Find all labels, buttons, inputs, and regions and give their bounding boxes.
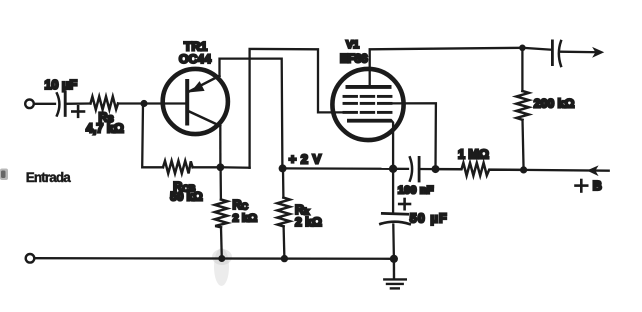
resistor 1M — [436, 163, 524, 176]
node screen/1M junction — [432, 165, 440, 173]
svg-text:2 kΩ: 2 kΩ — [233, 213, 258, 225]
node Rk bottom — [281, 255, 288, 262]
resistor Rk — [277, 168, 290, 258]
svg-text:200 kΩ: 200 kΩ — [534, 97, 575, 111]
wire collector down — [219, 126, 221, 168]
wire base node to transistor base — [144, 102, 186, 104]
svg-text:2 kΩ: 2 kΩ — [295, 215, 322, 229]
ground symbol — [384, 259, 406, 289]
capacitor C1 10uF — [57, 92, 65, 116]
wire input to C1 — [34, 103, 55, 105]
wire +2V node to cathode node — [283, 167, 393, 170]
node cathode — [389, 165, 397, 173]
svg-text:+ 2 V: + 2 V — [289, 152, 322, 167]
wire base node down to RCB — [142, 104, 163, 168]
svg-text:B: B — [593, 179, 602, 193]
wire screen grid g2 to right — [385, 103, 436, 169]
resistor 200k — [516, 48, 529, 170]
wire output with arrow — [561, 47, 605, 58]
svg-text:10 μF: 10 μF — [45, 78, 78, 92]
svg-text:50 kΩ: 50 kΩ — [170, 190, 202, 203]
wire cathode lead down — [392, 121, 394, 169]
svg-text:EF86: EF86 — [340, 52, 368, 66]
svg-text:100 nF: 100 nF — [398, 185, 434, 197]
polarity plus of C1 — [72, 106, 84, 117]
node base junction — [140, 100, 147, 107]
svg-text:1 MΩ: 1 MΩ — [458, 148, 489, 162]
input terminal (bottom) — [26, 254, 35, 263]
node collector junction — [217, 163, 225, 171]
node RC bottom — [218, 255, 225, 262]
capacitor output — [522, 41, 561, 66]
svg-text:OC44: OC44 — [179, 52, 211, 66]
wire emitter up and right to +2V node — [220, 59, 283, 169]
wire +B with arrow — [524, 165, 609, 176]
node anode/output — [519, 45, 526, 52]
capacitor 100nF — [393, 157, 435, 181]
node ground junction — [390, 255, 398, 263]
tube V1 EF86 — [332, 69, 403, 140]
polarity plus of C 50uF — [399, 199, 410, 209]
wire RS to base node — [118, 102, 144, 104]
svg-text:50 μF: 50 μF — [410, 211, 447, 225]
smudge artifact left margin — [0, 169, 8, 181]
wire C1 to RS — [65, 102, 90, 105]
wire RCB to collector node — [193, 166, 221, 168]
resistor RC — [215, 167, 228, 258]
resistor RCB — [163, 161, 193, 174]
resistor RS — [91, 97, 119, 110]
capacitor 50uF — [380, 169, 409, 259]
smudge artifact under RC node — [212, 248, 232, 286]
label +B — [576, 179, 602, 193]
svg-text:4,7 kΩ: 4,7 kΩ — [86, 122, 124, 136]
transistor TR1 OC44 — [163, 69, 228, 134]
svg-text:V1: V1 — [346, 39, 359, 51]
wire anode lead and top rail — [370, 48, 523, 86]
wire ground rail — [35, 257, 394, 260]
svg-text:Entrada: Entrada — [26, 170, 71, 185]
wire A collector to tube grid g1 — [250, 49, 345, 168]
input terminal (top) — [25, 100, 34, 109]
svg-text:RC: RC — [233, 198, 249, 212]
node +2V — [279, 164, 287, 172]
node +B junction — [520, 166, 527, 173]
wire collector node to riser — [220, 166, 249, 169]
